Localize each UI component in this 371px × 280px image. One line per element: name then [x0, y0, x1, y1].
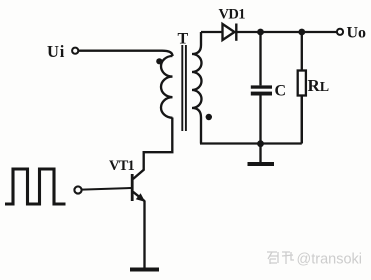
- output terminal Uo: [337, 29, 343, 35]
- transistor VT1 base bar: [131, 174, 134, 201]
- svg-text:Ui: Ui: [47, 42, 65, 61]
- input terminal (base drive): [74, 186, 81, 193]
- secondary polarity dot: [206, 114, 212, 120]
- svg-text:Uo: Uo: [347, 25, 367, 42]
- wire bottom rail: [200, 142, 302, 144]
- diode VD1: [223, 24, 235, 40]
- svg-text:T: T: [178, 31, 189, 48]
- svg-text:VT1: VT1: [109, 158, 135, 174]
- resistor RL wires: [301, 32, 303, 71]
- wire Ui to transformer primary top: [79, 51, 173, 56]
- wire base drive: [82, 188, 131, 190]
- ground (emitter): [130, 268, 159, 272]
- resistor RL body: [298, 71, 306, 96]
- wire emitter to ground: [143, 201, 145, 268]
- transformer core: [181, 45, 183, 131]
- capacitor C wires: [259, 32, 261, 85]
- wire top rail (secondary top to diode anode): [201, 31, 223, 33]
- primary polarity dot: [156, 58, 162, 64]
- transformer T primary winding: [161, 56, 173, 118]
- transformer T secondary winding with risers: [192, 32, 202, 144]
- svg-text:@transoki: @transoki: [297, 252, 363, 268]
- transistor VT1 emitter: [133, 192, 145, 201]
- capacitor C plates: [251, 85, 272, 88]
- input terminal Ui: [72, 48, 78, 54]
- wire resistor bottom stub: [301, 96, 303, 144]
- ground (output side): [259, 144, 261, 163]
- transistor VT1 collector path to primary winding bottom: [133, 118, 172, 180]
- junction dot resistor top: [298, 29, 305, 36]
- svg-text:VD1: VD1: [219, 7, 246, 23]
- square wave pulse symbol: [5, 169, 66, 204]
- svg-text:RL: RL: [308, 76, 330, 95]
- watermark zhihu: [267, 252, 294, 264]
- junction dot capacitor top: [257, 29, 264, 36]
- svg-text:C: C: [275, 83, 287, 100]
- junction dot bottom rail: [257, 140, 264, 147]
- wire diode cathode to Uo: [236, 31, 337, 33]
